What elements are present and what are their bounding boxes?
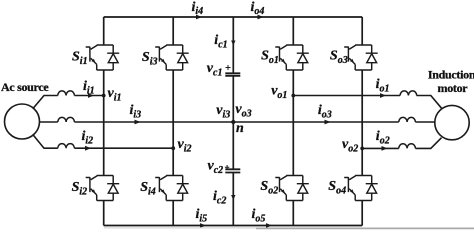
svg-text:vi3: vi3 [216,103,230,121]
svg-text:vc1: vc1 [207,61,223,79]
svg-text:io3: io3 [318,103,332,121]
svg-text:vo1: vo1 [271,83,287,101]
svg-text:So2: So2 [260,179,278,197]
svg-text:vo2: vo2 [342,137,358,155]
svg-text:Induction: Induction [428,68,474,82]
svg-text:ii3: ii3 [130,103,142,121]
svg-text:vi2: vi2 [178,137,192,155]
svg-text:So4: So4 [328,179,346,197]
svg-text:io4: io4 [251,0,265,17]
svg-text:Si4: Si4 [140,180,156,198]
svg-text:io1: io1 [376,77,390,95]
svg-text:So1: So1 [261,49,279,67]
svg-text:ii1: ii1 [83,79,95,97]
svg-text:vc2: vc2 [208,159,224,177]
svg-text:motor: motor [438,81,469,95]
svg-text:So3: So3 [330,49,348,67]
svg-text:io2: io2 [376,129,390,147]
svg-text:ic1: ic1 [214,33,227,51]
svg-text:n: n [236,121,244,136]
svg-text:ic2: ic2 [213,189,226,207]
svg-text:vo3: vo3 [235,102,251,120]
svg-text:Si2: Si2 [72,180,88,198]
svg-text:Si3: Si3 [142,50,158,68]
svg-text:io5: io5 [252,207,266,225]
svg-text:Si1: Si1 [72,50,88,68]
svg-text:ii5: ii5 [196,207,208,225]
svg-text:ii2: ii2 [82,129,94,147]
svg-text:ii4: ii4 [192,0,204,17]
svg-text:Ac source: Ac source [1,80,49,94]
svg-text:vi1: vi1 [108,86,122,104]
